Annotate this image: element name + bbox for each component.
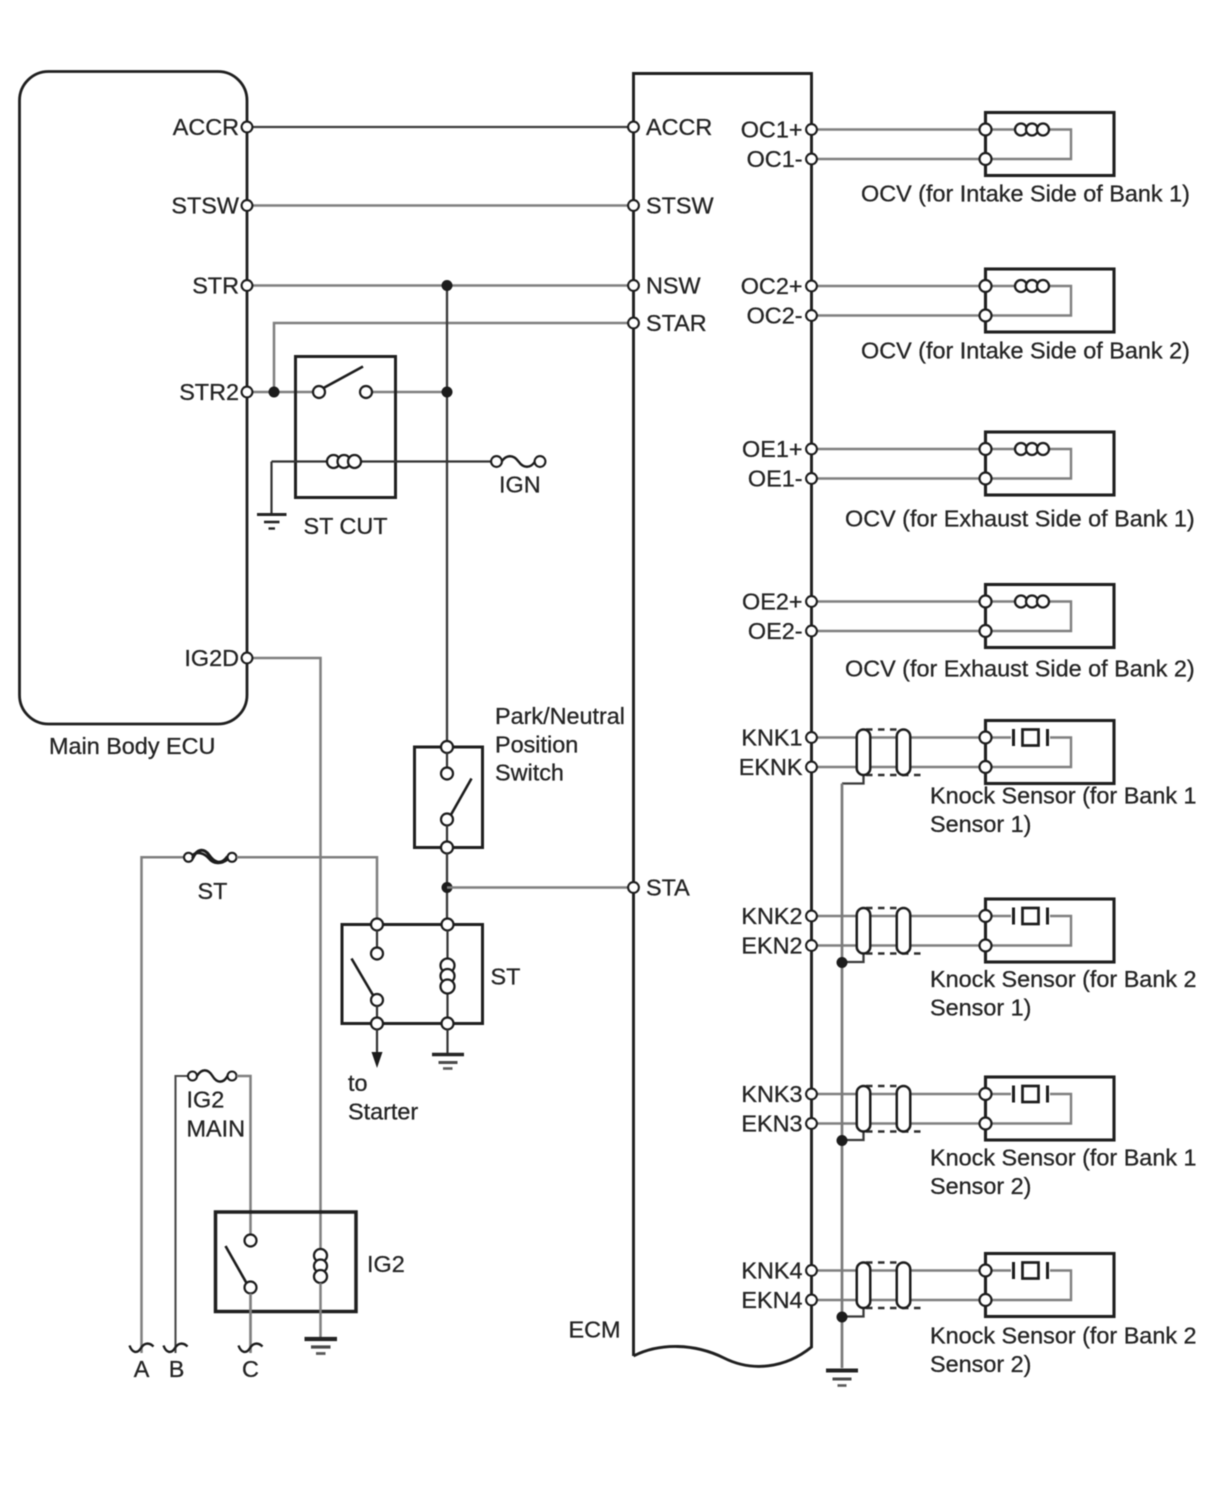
P/N bottom terminal [441, 842, 453, 854]
ST relay switch blade [352, 959, 374, 997]
piezo element of KS4 [1012, 1262, 1015, 1279]
svg-text:Park/Neutral: Park/Neutral [495, 703, 625, 729]
P/N switch blade [451, 779, 472, 816]
pin STR (Main Body ECU) [242, 280, 253, 291]
node junction STA [442, 882, 453, 893]
svg-text:EKN2: EKN2 [741, 933, 802, 959]
svg-text:STR2: STR2 [179, 379, 239, 405]
svg-text:ACCR: ACCR [173, 114, 239, 140]
pin KNK2 (ECM) [806, 911, 817, 922]
svg-text:Position: Position [495, 732, 578, 758]
wire internal loop of OCV1 [986, 130, 1072, 160]
Main Body ECU box U1 [20, 72, 248, 725]
wire shield drain stub of KS3 [842, 1130, 864, 1140]
ST relay inner wire bottom [376, 1006, 378, 1019]
terminal 1 of OCV2 [980, 280, 992, 292]
svg-text:STAR: STAR [646, 310, 707, 336]
svg-text:EKN4: EKN4 [741, 1287, 802, 1313]
sensor KS3 box [986, 1077, 1115, 1140]
pin STAR (ECM) [628, 318, 639, 329]
pin EKNK (ECM) [806, 762, 817, 773]
ground (IG2 coil) [305, 1339, 338, 1354]
shield dashes of KS3 [866, 1086, 921, 1132]
wire internal loop of OCV4 [986, 602, 1072, 632]
node junction ST CUT output [442, 387, 453, 398]
terminal 1 of OCV1 [980, 124, 992, 136]
wire OE1+ to OCV3 [812, 448, 986, 451]
svg-text:B: B [169, 1356, 185, 1382]
ST relay top terminal (switch side) [371, 919, 383, 931]
coil of OCV2 [1015, 280, 1049, 292]
wire to Starter [376, 1029, 378, 1054]
wire STR to NSW [247, 284, 634, 287]
svg-text:Main Body ECU: Main Body ECU [49, 733, 215, 759]
wire internal loop of OCV2 [986, 286, 1072, 316]
terminal 2 of OCV4 [980, 625, 992, 637]
P/N inner contact upper [441, 768, 453, 780]
ST relay coil wire [446, 930, 448, 1018]
terminal 1 of KS1 [980, 732, 992, 744]
pin EKN4 (ECM) [806, 1295, 817, 1306]
shield dashes of KS4 [866, 1263, 921, 1309]
coil of OCV3 [1015, 443, 1049, 455]
switch Park/Neutral Position box [415, 747, 483, 848]
svg-text:OC1-: OC1- [747, 146, 803, 172]
svg-text:OE1+: OE1+ [742, 436, 802, 462]
svg-text:IG2: IG2 [187, 1087, 225, 1113]
fuse IG2 MAIN circle right [228, 1072, 237, 1081]
pin OE1- (ECM) [806, 473, 817, 484]
shield ring 1 of KS2 [857, 908, 871, 954]
wire EKN4 to KS4 [812, 1299, 986, 1302]
wire OC2- to OCV2 [812, 314, 986, 317]
relay ST box [342, 925, 483, 1024]
pin STR2 (Main Body ECU) [242, 387, 253, 398]
fuse IGN element [502, 456, 536, 467]
wire STSW (Main Body ECU to ECM) [247, 204, 634, 207]
fuse ST circle right [228, 853, 237, 862]
svg-text:ST CUT: ST CUT [304, 513, 388, 539]
ST CUT switch blade [324, 367, 364, 389]
sensor KS2 box [986, 899, 1115, 962]
shield ring 2 of KS4 [897, 1263, 911, 1309]
wire OE1- to OCV3 [812, 477, 986, 480]
fuse IG2 MAIN wire from B column [176, 1076, 189, 1353]
wire internal of KS1 [986, 738, 1072, 768]
svg-text:OCV (for Exhaust Side of Bank: OCV (for Exhaust Side of Bank 1) [845, 506, 1195, 532]
pin OE2+ (ECM) [806, 596, 817, 607]
wire OE2+ to OCV4 [812, 600, 986, 603]
svg-text:Knock Sensor (for Bank 1: Knock Sensor (for Bank 1 [930, 783, 1197, 809]
wire ACCR (Main Body ECU to ECM) [247, 126, 634, 128]
wire IG2 coil to ground [319, 1283, 322, 1337]
wire STR2 stub [247, 391, 319, 394]
svg-text:EKNK: EKNK [739, 754, 803, 780]
svg-text:IGN: IGN [499, 472, 541, 498]
wire KNK1 to KS1 [812, 736, 986, 739]
pin OE2- (ECM) [806, 626, 817, 637]
svg-text:KNK1: KNK1 [741, 725, 802, 751]
shield ring 1 of KS3 [857, 1086, 871, 1132]
svg-text:EKN3: EKN3 [741, 1111, 802, 1137]
pin OC2+ (ECM) [806, 281, 817, 292]
IG2 switch contact lower [245, 1282, 257, 1294]
fuse IGN circle right [535, 456, 546, 467]
P/N switch top terminal [441, 741, 453, 753]
svg-text:Sensor 2): Sensor 2) [930, 1173, 1031, 1199]
solenoid valve OCV3 box [986, 432, 1115, 495]
shield ring 2 of KS2 [897, 908, 911, 954]
ground (shield drain) [826, 1371, 858, 1386]
ST relay inner wire top [376, 930, 378, 948]
wire KNK3 to KS3 [812, 1093, 986, 1096]
svg-text:OE2+: OE2+ [742, 589, 802, 615]
sensor KS1 box [986, 721, 1115, 784]
svg-text:C: C [242, 1356, 259, 1382]
svg-text:Starter: Starter [348, 1099, 418, 1125]
terminal 1 of OCV4 [980, 596, 992, 608]
node junction shield KNK2 [837, 957, 848, 968]
connector break A [130, 1344, 154, 1352]
svg-text:Knock Sensor (for Bank 1: Knock Sensor (for Bank 1 [930, 1145, 1197, 1171]
wire ST fuse to ST relay [237, 857, 378, 924]
pin STSW (Main Body ECU) [242, 200, 253, 211]
svg-text:Knock Sensor (for Bank 2: Knock Sensor (for Bank 2 [930, 1323, 1197, 1349]
IG2 switch blade [226, 1246, 247, 1283]
svg-text:KNK3: KNK3 [741, 1081, 802, 1107]
pin NSW (ECM) [628, 280, 639, 291]
svg-text:Switch: Switch [495, 760, 564, 786]
svg-text:OCV (for Intake Side of Bank 2: OCV (for Intake Side of Bank 2) [861, 338, 1190, 364]
fuse IGN circle left [491, 456, 502, 467]
terminal 2 of OCV2 [980, 310, 992, 322]
ST relay bottom terminal (coil side) [442, 1018, 454, 1030]
ST relay top terminal (coil side) [442, 919, 454, 931]
fuse ST element (fusible link) [193, 850, 228, 862]
svg-text:Sensor 1): Sensor 1) [930, 811, 1031, 837]
ground (ST CUT coil) [257, 515, 287, 529]
wire STAR to STR2 node [274, 323, 634, 392]
pin OE1+ (ECM) [806, 444, 817, 455]
wire ST relay coil to ground [446, 1029, 448, 1053]
piezo element of KS1 [1012, 729, 1015, 746]
wire ST CUT coil feed to IGN [272, 460, 497, 462]
pin ACCR (Main Body ECU) [242, 122, 253, 133]
P/N inner wire top [446, 753, 448, 769]
svg-text:OC2-: OC2- [747, 303, 803, 329]
piezo element of KS3 [1012, 1086, 1015, 1103]
shield ring 2 of KS3 [897, 1086, 911, 1132]
svg-text:OC1+: OC1+ [741, 117, 803, 143]
svg-text:MAIN: MAIN [187, 1116, 245, 1142]
svg-text:Knock Sensor (for Bank 2: Knock Sensor (for Bank 2 [930, 966, 1197, 992]
node junction shield KNK3 [837, 1135, 848, 1146]
svg-text:OC2+: OC2+ [741, 273, 803, 299]
wire IG2 switch to C column [249, 1294, 252, 1354]
svg-text:STA: STA [646, 875, 690, 901]
wire shield drain stub of KS2 [842, 952, 864, 962]
fuse IG2 MAIN circle left [188, 1072, 197, 1081]
svg-text:A: A [134, 1356, 150, 1382]
pin KNK4 (ECM) [806, 1265, 817, 1276]
svg-text:OCV (for Exhaust Side of Bank: OCV (for Exhaust Side of Bank 2) [845, 656, 1195, 682]
wire shield drain bus [841, 784, 844, 1369]
P/N inner wire bottom [446, 825, 448, 842]
wire internal of KS3 [986, 1094, 1072, 1124]
solenoid valve OCV4 box [986, 585, 1115, 648]
wire OC1- to OCV1 [812, 158, 986, 161]
pin OC1+ (ECM) [806, 124, 817, 135]
coil of OCV1 [1015, 124, 1049, 136]
wire vertical from STR junction down to Park/Neutral switch [446, 286, 448, 748]
terminal 2 of KS1 [980, 761, 992, 773]
coil of relay ST [441, 959, 455, 994]
wire internal loop of OCV3 [986, 449, 1072, 479]
terminal 2 of OCV1 [980, 153, 992, 165]
fuse IG2 MAIN element [197, 1070, 228, 1081]
pin KNK1 (ECM) [806, 732, 817, 743]
terminal 1 of KS2 [980, 910, 992, 922]
pin EKN3 (ECM) [806, 1118, 817, 1129]
shield dashes of KS2 [866, 908, 921, 954]
wire KNK4 to KS4 [812, 1269, 986, 1272]
svg-text:STR: STR [192, 273, 239, 299]
svg-text:to: to [348, 1070, 368, 1096]
pin STA (ECM) [628, 882, 639, 893]
ST relay inner contact lower [371, 994, 383, 1006]
sensor KS4 box [986, 1254, 1115, 1317]
wire IG2 MAIN fuse to IG2 relay switch [237, 1076, 251, 1235]
terminal 2 of OCV3 [980, 473, 992, 485]
wire EKN2 to KS2 [812, 944, 986, 947]
P/N inner contact lower [441, 814, 453, 826]
wire OC2+ to OCV2 [812, 285, 986, 288]
pin ACCR (ECM) [628, 122, 639, 133]
shield ring 2 of KS1 [897, 730, 911, 776]
pin OC1- (ECM) [806, 154, 817, 165]
svg-text:Sensor 1): Sensor 1) [930, 995, 1031, 1021]
pin EKN2 (ECM) [806, 940, 817, 951]
svg-text:ACCR: ACCR [646, 114, 712, 140]
node junction shield KNK4 [837, 1312, 848, 1323]
node junction STR/NSW [442, 280, 453, 291]
wire OE2- to OCV4 [812, 630, 986, 633]
svg-text:STSW: STSW [171, 193, 239, 219]
wire shield drain stub of KS1 [842, 773, 864, 783]
coil of relay IG2 [314, 1249, 327, 1283]
wire shield drain stub of KS4 [842, 1306, 864, 1316]
terminal 2 of KS4 [980, 1294, 992, 1306]
svg-text:IG2: IG2 [367, 1251, 405, 1277]
wire IG2D down to IG2 relay coil [247, 658, 321, 1249]
shield ring 1 of KS4 [857, 1263, 871, 1309]
terminal 1 of OCV3 [980, 443, 992, 455]
svg-text:IG2D: IG2D [184, 645, 239, 671]
shield ring 1 of KS1 [857, 730, 871, 776]
wire internal of KS4 [986, 1271, 1072, 1301]
solenoid valve OCV2 box [986, 269, 1115, 332]
node junction STR2/STAR [269, 387, 280, 398]
connector break C [239, 1344, 263, 1352]
wire KNK2 to KS2 [812, 915, 986, 918]
wire OC1+ to OCV1 [812, 128, 986, 131]
coil of relay ST CUT [327, 455, 361, 468]
wire EKNK to KS1 [812, 766, 986, 769]
svg-text:ST: ST [491, 964, 521, 990]
svg-text:NSW: NSW [646, 273, 701, 299]
svg-text:ST: ST [198, 878, 228, 904]
solenoid valve OCV1 box [986, 113, 1115, 176]
pin IG2D (Main Body ECU) [242, 653, 253, 664]
relay ST CUT box [296, 357, 396, 498]
IG2 switch contact upper [245, 1235, 257, 1247]
ST relay inner contact upper [371, 948, 383, 960]
shield dashes of KS1 [866, 730, 921, 776]
svg-text:ECM: ECM [569, 1317, 621, 1343]
terminal 2 of KS2 [980, 940, 992, 952]
wire P/N switch to ST relay [446, 853, 448, 925]
ST CUT switch contact left [313, 386, 325, 398]
terminal 1 of KS4 [980, 1265, 992, 1277]
ground (ST relay coil) [432, 1055, 464, 1069]
svg-text:KNK4: KNK4 [741, 1258, 802, 1284]
relay IG2 box [216, 1212, 357, 1312]
pin OC2- (ECM) [806, 310, 817, 321]
svg-text:OE2-: OE2- [748, 618, 803, 644]
svg-text:STSW: STSW [646, 193, 714, 219]
connector break B [164, 1344, 188, 1352]
pin STSW (ECM) [628, 200, 639, 211]
svg-text:OCV (for Intake Side of Bank 1: OCV (for Intake Side of Bank 1) [861, 181, 1190, 207]
wire ground stub of ST CUT coil [270, 462, 272, 514]
svg-text:OE1-: OE1- [748, 466, 803, 492]
ECM box U2 [634, 74, 812, 1367]
wire internal of KS2 [986, 916, 1072, 946]
arrow to Starter [372, 1052, 383, 1068]
wire ST CUT output to vertical bus [366, 391, 447, 394]
fuse ST circle left [184, 853, 193, 862]
fuse ST wire from A column [142, 857, 185, 1353]
terminal 1 of KS3 [980, 1088, 992, 1100]
ST CUT switch contact right [360, 386, 372, 398]
wire STA to ECM [447, 886, 634, 889]
svg-text:Sensor 2): Sensor 2) [930, 1351, 1031, 1377]
svg-text:KNK2: KNK2 [741, 903, 802, 929]
coil of OCV4 [1015, 596, 1049, 608]
terminal 2 of KS3 [980, 1118, 992, 1130]
wire EKN3 to KS3 [812, 1122, 986, 1125]
pin KNK3 (ECM) [806, 1089, 817, 1100]
ST relay bottom terminal (switch side) [371, 1018, 383, 1030]
piezo element of KS2 [1012, 908, 1015, 925]
